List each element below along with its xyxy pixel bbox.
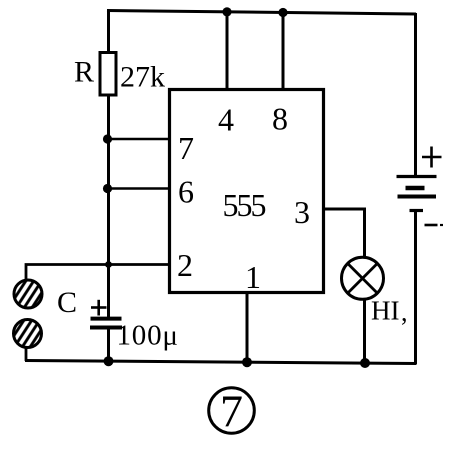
junction dot: pin 2 / capacitor node <box>105 261 112 268</box>
svg-text:27k: 27k <box>120 61 165 94</box>
wire: to pin 6 <box>108 187 171 190</box>
wire: to pin 7 <box>108 138 171 141</box>
junction dot: node pin 6 <box>103 184 112 193</box>
svg-text:R: R <box>74 56 94 89</box>
label + (capacitor polarity) <box>91 300 107 316</box>
wire: pin 1 to bottom rail <box>246 292 249 362</box>
wire: resistor top lead up to top rail corner <box>107 11 110 54</box>
wire: touch plate E1 to pin 2 <box>26 265 170 281</box>
junction dot: node pin 7 <box>103 134 112 143</box>
junction dot: lamp / bottom rail <box>360 358 370 368</box>
junction dot: capacitor / bottom rail <box>104 356 114 366</box>
wire: capacitor bottom lead <box>107 329 110 362</box>
svg-text:100μ: 100μ <box>117 320 179 352</box>
wire: left column from resistor bottom down to capacitor <box>107 95 110 317</box>
wire: lamp bottom to bottom rail <box>363 301 366 364</box>
label - (battery negative) <box>425 224 444 227</box>
svg-text:2: 2 <box>177 247 193 283</box>
svg-text:3: 3 <box>294 194 310 230</box>
svg-text:C: C <box>57 286 77 319</box>
svg-text:555: 555 <box>223 187 266 223</box>
label + (battery positive) <box>422 147 442 168</box>
svg-text:1: 1 <box>245 259 261 295</box>
wire: right column from top rail down to battery + plate <box>414 13 417 176</box>
wire: pin 8 riser <box>282 13 285 91</box>
touch plate E1 (hatched) <box>14 280 42 308</box>
svg-text:HI: HI <box>371 296 400 326</box>
svg-text:8: 8 <box>272 101 288 137</box>
junction dot: pin 8 riser on top rail <box>278 8 287 17</box>
junction dot: pin 1 / bottom rail <box>242 357 252 367</box>
lamp HL <box>342 257 384 299</box>
capacitor C plates <box>90 319 122 328</box>
svg-text:6: 6 <box>178 174 194 210</box>
wire: pin 4 riser <box>226 12 229 90</box>
touch plate E2 (hatched) <box>14 320 42 348</box>
svg-text:7: 7 <box>220 386 243 437</box>
junction dot: pin 4 riser on top rail <box>222 7 231 16</box>
IC U1 555 timer box <box>170 90 324 293</box>
svg-text:,: , <box>401 298 408 327</box>
svg-text:7: 7 <box>178 130 194 166</box>
wire: top supply rail <box>107 11 416 15</box>
wire: touch plate E2 to bottom rail <box>25 347 28 361</box>
wire: pin 3 to lamp <box>324 209 365 257</box>
figure number 7 (circled) <box>209 386 255 437</box>
svg-text:4: 4 <box>218 102 234 138</box>
wire: battery negative down to bottom rail <box>414 211 417 365</box>
wire: bottom rail <box>25 361 417 364</box>
battery B <box>397 177 437 211</box>
resistor R body <box>100 53 116 96</box>
